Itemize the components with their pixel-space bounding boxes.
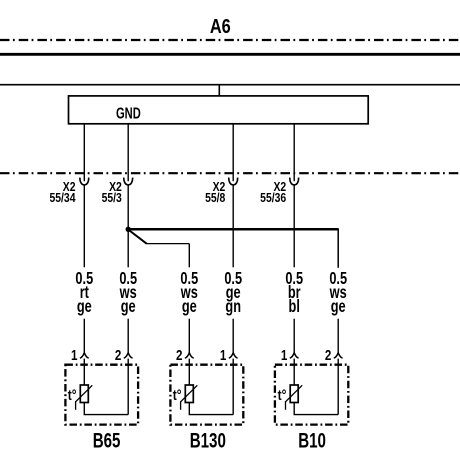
svg-text:55/3: 55/3 — [102, 191, 123, 205]
thermistor foot B65 — [75, 401, 77, 410]
thermistor diagonal B130 — [181, 385, 198, 402]
wire label c5 0.5 br bl — [285, 269, 303, 317]
svg-text:ge: ge — [331, 297, 346, 317]
connector label X2 55/8 — [205, 180, 226, 206]
svg-text:t°: t° — [173, 387, 182, 404]
wire c5 connector to label — [293, 185, 295, 267]
ground block GND box — [69, 96, 369, 124]
svg-text:B10: B10 — [298, 428, 326, 452]
svg-text:ge: ge — [182, 297, 197, 317]
wire c6 label to B10 — [337, 319, 339, 353]
bus wire thick — [0, 53, 460, 56]
wire c4 label to B130 — [232, 319, 234, 353]
svg-text:1: 1 — [281, 347, 287, 364]
connector label X2 55/36 — [260, 180, 286, 206]
svg-text:A6: A6 — [210, 14, 231, 37]
connector X2 socket pin 55/8 — [229, 178, 238, 185]
svg-text:B130: B130 — [190, 428, 226, 452]
connector X2 socket pin 55/34 — [80, 178, 89, 185]
thermistor body B65 — [80, 385, 88, 403]
svg-text:1: 1 — [71, 347, 77, 364]
svg-text:55/8: 55/8 — [205, 191, 226, 205]
connector label X2 55/34 — [49, 180, 75, 206]
connector X2 socket pin 55/36 — [290, 178, 299, 185]
svg-text:bl: bl — [289, 297, 300, 317]
plug arrow B10 pin 1 — [290, 353, 299, 359]
wire label c2 0.5 ws ge — [119, 269, 137, 317]
connector label X2 55/3 — [102, 180, 123, 206]
svg-text:2: 2 — [176, 347, 182, 364]
plug arrow B65 pin 1 — [80, 353, 89, 359]
wire B130 internal loop — [189, 403, 233, 415]
wire c4 connector to label — [232, 185, 234, 267]
wire B130 pin2 into box — [188, 359, 190, 385]
sensor B130 dash-dot box — [170, 365, 243, 425]
wire B65 internal loop — [84, 403, 128, 415]
wire GND to connector 55/8 — [232, 124, 234, 181]
svg-text:55/34: 55/34 — [49, 191, 75, 205]
svg-text:t°: t° — [278, 387, 287, 404]
wire label c4 0.5 ge gn — [224, 269, 242, 317]
junction node on wire c2 — [126, 227, 131, 232]
thermistor body B10 — [290, 385, 298, 403]
wire c1 connector to label — [83, 185, 85, 267]
svg-text:55/36: 55/36 — [260, 191, 286, 205]
svg-text:t°: t° — [68, 387, 77, 404]
wire B130 pin1 into box — [232, 359, 234, 415]
thermistor foot B130 — [180, 401, 182, 410]
plug arrow B10 pin 2 — [334, 353, 343, 359]
wire c2 connector to label — [127, 185, 129, 267]
bus wire thin — [0, 84, 460, 86]
wire B10 pin1 into box — [293, 359, 295, 385]
sensor B10 dash-dot box — [275, 365, 348, 425]
wire c1 label to B65 — [83, 319, 85, 353]
svg-text:ge: ge — [77, 297, 92, 317]
thermistor diagonal B10 — [286, 385, 303, 402]
plug arrow B130 pin 1 — [229, 353, 238, 359]
thermistor diagonal B65 — [76, 385, 93, 402]
wire c2 label to B65 — [127, 319, 129, 353]
thermistor foot B10 — [285, 401, 287, 410]
wire GND to connector 55/3 — [127, 124, 129, 181]
A6 boundary dash-dot line — [0, 39, 460, 41]
wire B10 internal loop — [294, 403, 338, 415]
wire label c6 0.5 ws ge — [329, 269, 347, 317]
wire c5 label to B10 — [293, 319, 295, 353]
wire label c3 0.5 ws ge — [180, 269, 198, 317]
plug arrow B130 pin 2 — [185, 353, 194, 359]
svg-text:gn: gn — [225, 297, 241, 317]
wire GND to connector 55/36 — [293, 124, 295, 181]
wire GND to connector 55/34 — [83, 124, 85, 181]
svg-text:B65: B65 — [93, 428, 121, 452]
wire c3 branch to label — [188, 244, 190, 268]
svg-text:1: 1 — [220, 347, 226, 364]
wire B65 pin2 into box — [127, 359, 129, 415]
thermistor body B130 — [185, 385, 193, 403]
wire c3 label to B130 — [188, 319, 190, 353]
wire B65 pin1 into box — [83, 359, 85, 385]
wire c6 down from thick wire — [337, 228, 339, 267]
wire bus to GND box — [218, 85, 220, 97]
connector X2 socket pin 55/3 — [124, 178, 133, 185]
wire diagonal branch from junction — [129, 230, 147, 244]
wire branch horizontal to c3 — [146, 243, 190, 245]
svg-text:GND: GND — [116, 105, 141, 122]
svg-text:2: 2 — [115, 347, 121, 364]
plug arrow B65 pin 2 — [124, 353, 133, 359]
harness boundary dash-dot line — [0, 172, 460, 174]
svg-text:2: 2 — [325, 347, 331, 364]
wire label c1 0.5 rt ge — [75, 269, 93, 317]
wire junction to c6 thick — [127, 228, 338, 231]
sensor B65 dash-dot box — [65, 365, 138, 425]
svg-text:ge: ge — [121, 297, 136, 317]
wire B10 pin2 into box — [337, 359, 339, 415]
